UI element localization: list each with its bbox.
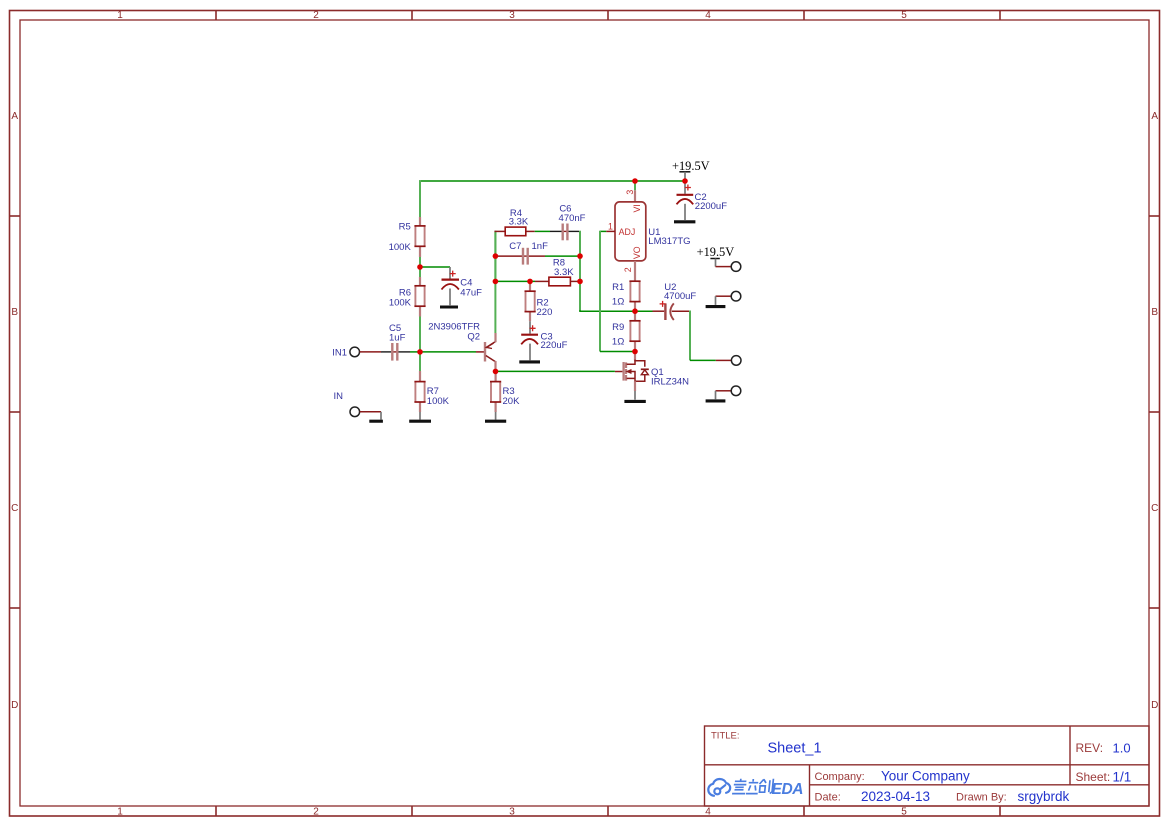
wire +19.5V rail top — [419, 180, 685, 182]
svg-text:VI: VI — [632, 204, 642, 212]
ground IN — [369, 412, 383, 421]
resistor R1 1ohm — [612, 281, 641, 311]
svg-text:3: 3 — [509, 806, 515, 817]
ground C3 — [519, 360, 540, 363]
svg-text:5: 5 — [901, 10, 907, 21]
node R5/R6/C4 junction — [417, 264, 423, 270]
svg-text:1/1: 1/1 — [1113, 770, 1132, 785]
resistor R2 220 — [525, 281, 553, 321]
svg-text:1.0: 1.0 — [1113, 741, 1131, 756]
svg-text:1uF: 1uF — [389, 333, 406, 344]
svg-text:4: 4 — [705, 10, 711, 21]
op-amp U1 LM317TG — [606, 181, 690, 281]
resistor R7 — [414, 371, 449, 412]
svg-text:D: D — [1151, 700, 1158, 711]
svg-text:100K: 100K — [427, 396, 450, 407]
svg-text:Company:: Company: — [815, 771, 865, 783]
svg-text:20K: 20K — [503, 396, 521, 407]
node R2 tap — [527, 279, 533, 285]
capacitor C6 470nF — [550, 203, 586, 240]
resistor R9 1ohm — [612, 311, 641, 351]
svg-text:2: 2 — [313, 10, 319, 21]
wire R5 to node — [419, 257, 421, 277]
port out2 gnd — [716, 291, 741, 301]
node R8 right — [577, 279, 583, 285]
svg-text:B: B — [1151, 307, 1158, 318]
wire U2 out to port — [690, 359, 716, 361]
svg-text:5: 5 — [901, 806, 907, 817]
svg-text:220uF: 220uF — [541, 340, 568, 351]
node R9/Q1 drain — [632, 349, 638, 355]
svg-text:1nF: 1nF — [532, 241, 549, 252]
svg-text:+19.5V: +19.5V — [697, 245, 735, 259]
svg-text:IRLZ34N: IRLZ34N — [651, 377, 689, 388]
svg-text:ADJ: ADJ — [619, 227, 636, 237]
svg-text:1: 1 — [117, 806, 123, 817]
svg-text:srgybrdk: srgybrdk — [1018, 789, 1070, 804]
title block — [705, 726, 1150, 806]
svg-text:C7: C7 — [509, 241, 521, 252]
wire ADJ to node — [600, 230, 606, 232]
port out4 gnd — [716, 386, 741, 396]
resistor R6 — [389, 277, 426, 317]
wire U2 out down — [689, 311, 691, 361]
ground R7 — [409, 412, 431, 421]
svg-text:EDA: EDA — [772, 781, 804, 798]
ground R3 — [485, 412, 506, 421]
resistor R4 3.3K — [495, 208, 535, 236]
wire R4 to C6 — [535, 230, 550, 232]
svg-text:D: D — [11, 700, 18, 711]
svg-text:R5: R5 — [399, 222, 411, 233]
svg-text:3.3K: 3.3K — [554, 267, 574, 278]
svg-text:2200uF: 2200uF — [695, 201, 727, 212]
wire U2 left — [635, 310, 653, 312]
svg-text:100K: 100K — [389, 242, 412, 253]
node C7 right — [577, 253, 583, 259]
node R1/R9/U2 — [632, 308, 638, 314]
power flag +19.5V at port — [697, 245, 735, 266]
ground C4 — [440, 305, 458, 308]
wire right rail corner to R1 node — [580, 310, 635, 311]
svg-text:4700uF: 4700uF — [664, 291, 696, 302]
node IN1/R6/R7/Q2 base — [417, 349, 423, 355]
port IN1 — [332, 347, 381, 358]
svg-text:R1: R1 — [612, 282, 624, 293]
capacitor C3 220uF — [521, 321, 567, 360]
capacitor C4 47uF — [442, 267, 483, 305]
svg-text:470nF: 470nF — [559, 213, 586, 224]
svg-text:3: 3 — [625, 190, 635, 195]
svg-text:3.3K: 3.3K — [509, 216, 529, 227]
svg-text:IN: IN — [334, 391, 344, 402]
port out3 — [716, 356, 741, 366]
wire C7 to right rail — [545, 255, 580, 257]
ground C2 — [674, 220, 695, 223]
wire pin3 stub — [634, 181, 636, 190]
node C7 left — [493, 253, 499, 259]
svg-text:LM317TG: LM317TG — [648, 236, 690, 247]
svg-text:B: B — [11, 307, 18, 318]
JLCEDA logo — [708, 779, 730, 796]
transistor Q2 2N3906TFR — [428, 322, 495, 370]
power flag +19.5V at C2 — [672, 159, 710, 181]
svg-text:+19.5V: +19.5V — [672, 159, 710, 173]
node R8 row left — [493, 279, 499, 285]
svg-text:4: 4 — [705, 806, 711, 817]
svg-text:R9: R9 — [612, 322, 624, 333]
svg-text:1Ω: 1Ω — [612, 337, 624, 348]
wire node to C4 — [419, 266, 450, 268]
svg-text:2: 2 — [313, 806, 319, 817]
svg-text:1Ω: 1Ω — [612, 297, 624, 308]
node +19.5V pin3 — [632, 178, 638, 184]
capacitor U2 4700uF — [653, 282, 697, 320]
port IN — [334, 391, 382, 417]
svg-text:Q2: Q2 — [467, 332, 480, 343]
svg-text:TITLE:: TITLE: — [711, 731, 740, 742]
wire rail down to R5 — [419, 180, 421, 217]
wire R8 row left — [495, 280, 535, 282]
svg-text:2023-04-13: 2023-04-13 — [861, 789, 930, 804]
wire ADJ rail down — [599, 231, 601, 352]
wire C5 to node — [410, 351, 418, 353]
svg-text:REV:: REV: — [1076, 741, 1104, 755]
ground port4 — [706, 391, 726, 401]
ground port2 — [706, 296, 726, 306]
svg-text:1: 1 — [117, 10, 123, 21]
wire feedback left rail — [494, 231, 496, 282]
transistor Q1 IRLZ34N — [615, 352, 689, 392]
resistor R8 3.3K — [535, 258, 580, 286]
wire node to Q2 base — [421, 351, 476, 353]
capacitor C7 1nF — [495, 241, 548, 264]
resistor R5 — [389, 217, 426, 257]
ground Q1 — [624, 391, 645, 401]
svg-text:1: 1 — [608, 222, 613, 232]
capacitor C5 1uF — [381, 323, 410, 361]
svg-text:A: A — [1151, 111, 1158, 122]
svg-text:3: 3 — [509, 10, 515, 21]
svg-text:Sheet:: Sheet: — [1076, 770, 1111, 784]
svg-text:Drawn By:: Drawn By: — [956, 791, 1007, 803]
svg-text:Sheet_1: Sheet_1 — [768, 741, 822, 757]
svg-text:2: 2 — [623, 267, 633, 272]
svg-text:220: 220 — [537, 307, 553, 318]
wire ADJ rail to R9 node — [600, 351, 633, 353]
node Q2 collector / gate — [493, 369, 499, 375]
svg-text:IN1: IN1 — [332, 347, 347, 358]
svg-text:Your Company: Your Company — [881, 769, 970, 784]
svg-text:C: C — [1151, 503, 1158, 514]
svg-text:100K: 100K — [389, 298, 412, 309]
resistor R3 — [490, 371, 520, 412]
node +19.5V C2 — [682, 178, 688, 184]
svg-text:VO: VO — [632, 246, 642, 259]
svg-text:A: A — [11, 111, 18, 122]
svg-text:47uF: 47uF — [460, 288, 482, 299]
wire feedback right rail — [579, 231, 581, 312]
capacitor C2 2200uF — [677, 181, 728, 220]
svg-text:C: C — [11, 503, 18, 514]
wire R6 to IN1 node — [419, 317, 421, 372]
wire Q2 emitter rail up — [494, 231, 496, 333]
svg-text:Date:: Date: — [815, 791, 841, 803]
port out1 +19.5V — [716, 262, 741, 272]
wire gate run — [497, 370, 615, 372]
